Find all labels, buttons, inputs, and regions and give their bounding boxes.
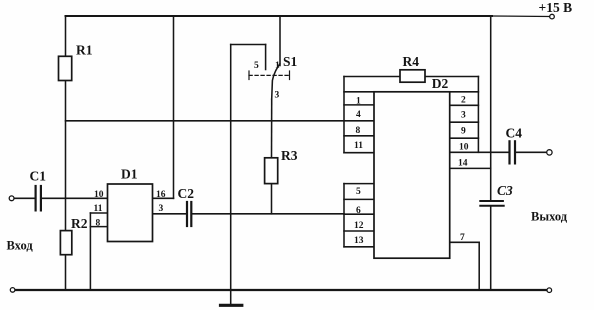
svg-text:1: 1 bbox=[356, 97, 361, 107]
svg-text:Вход: Вход bbox=[7, 239, 34, 253]
svg-text:6: 6 bbox=[356, 206, 361, 216]
svg-text:C1: C1 bbox=[30, 169, 47, 184]
svg-text:C4: C4 bbox=[506, 126, 523, 141]
svg-text:2: 2 bbox=[461, 96, 466, 106]
svg-text:8: 8 bbox=[96, 219, 101, 229]
svg-text:13: 13 bbox=[354, 236, 364, 246]
svg-text:11: 11 bbox=[354, 141, 363, 151]
svg-text:5: 5 bbox=[356, 187, 361, 197]
svg-text:16: 16 bbox=[156, 190, 166, 200]
svg-text:10: 10 bbox=[459, 143, 469, 153]
svg-text:1: 1 bbox=[275, 61, 280, 71]
svg-text:12: 12 bbox=[354, 221, 364, 231]
svg-text:R1: R1 bbox=[76, 43, 93, 58]
svg-text:R3: R3 bbox=[281, 148, 298, 163]
svg-text:D2: D2 bbox=[432, 76, 449, 91]
svg-text:7: 7 bbox=[460, 233, 465, 243]
svg-text:Выход: Выход bbox=[531, 210, 568, 224]
svg-text:5: 5 bbox=[254, 61, 259, 71]
svg-text:3: 3 bbox=[461, 111, 466, 121]
svg-text:9: 9 bbox=[461, 127, 466, 137]
svg-text:+15 В: +15 В bbox=[539, 0, 573, 15]
svg-text:R4: R4 bbox=[403, 54, 420, 69]
svg-text:D1: D1 bbox=[121, 167, 138, 182]
svg-text:8: 8 bbox=[356, 126, 361, 136]
svg-text:10: 10 bbox=[94, 190, 104, 200]
svg-text:3: 3 bbox=[159, 204, 164, 214]
svg-text:C2: C2 bbox=[178, 186, 195, 201]
svg-text:11: 11 bbox=[94, 204, 103, 214]
svg-text:14: 14 bbox=[458, 159, 468, 169]
svg-text:3: 3 bbox=[275, 91, 280, 101]
svg-text:4: 4 bbox=[356, 110, 361, 120]
svg-text:S1: S1 bbox=[283, 54, 298, 69]
svg-text:R2: R2 bbox=[71, 216, 88, 231]
svg-text:C3: C3 bbox=[497, 183, 513, 198]
